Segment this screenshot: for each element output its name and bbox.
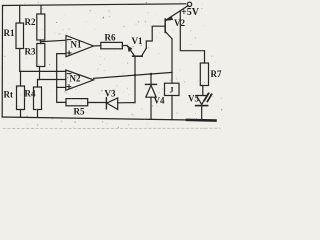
- node junction V1 base: [134, 74, 136, 76]
- wire bottom ground rail: [2, 117, 215, 120]
- wire R6 to V1 emitter: [122, 45, 127, 47]
- svg-text:V1: V1: [132, 36, 143, 46]
- svg-text:Rt: Rt: [4, 90, 14, 100]
- wire +5V branch to R7: [180, 11, 204, 63]
- svg-text:V4: V4: [154, 96, 165, 106]
- wire top +5V rail: [3, 4, 186, 6]
- wire R2/R3 junction to N1 inverting input: [41, 40, 67, 42]
- transistor V1: [127, 45, 146, 56]
- svg-text:R3: R3: [25, 47, 36, 57]
- svg-text:N1: N1: [71, 40, 82, 50]
- wire N2 output node line: [94, 72, 172, 78]
- svg-text:R5: R5: [74, 107, 85, 117]
- op-amp N1: [66, 36, 94, 57]
- wire R1/Rt junction to N2 inverting input: [20, 70, 66, 72]
- op-amp N2: [66, 70, 94, 90]
- resistor R3: [37, 40, 45, 80]
- resistor R2: [37, 5, 45, 40]
- LED V5: [196, 86, 213, 121]
- wire V1 base / feedback node vertical: [134, 56, 136, 102]
- resistor R1: [16, 5, 24, 71]
- svg-text:J: J: [170, 86, 174, 95]
- wire feedback vertical to N1+ and N2+: [57, 54, 66, 103]
- svg-text:R7: R7: [211, 69, 222, 79]
- resistor R7: [200, 63, 208, 86]
- relay coil J: [165, 83, 180, 119]
- wire V2 collector down to relay node: [171, 39, 173, 83]
- wire N2 plus stub: [57, 86, 66, 88]
- op-amp input signs: [67, 39, 71, 41]
- svg-text:R6: R6: [105, 33, 116, 43]
- paper speckle noise: [2, 2, 223, 131]
- svg-text:V2: V2: [174, 18, 185, 28]
- transistor V2: [165, 6, 188, 39]
- wire R3/R4 junction to N2 left edge: [38, 79, 66, 81]
- wire N1 output to R6: [94, 45, 101, 47]
- wire V1 collector to V2 base: [146, 26, 164, 48]
- resistor Rt: [17, 71, 25, 117]
- resistor R5: [66, 99, 88, 106]
- svg-text:N2: N2: [70, 74, 81, 84]
- resistor R6: [101, 42, 123, 48]
- svg-text:R2: R2: [25, 17, 36, 27]
- wire left rail: [1, 6, 3, 118]
- wire bottom rail thick segment: [187, 119, 216, 122]
- diode V4: [146, 74, 157, 120]
- node junction V4 lead: [150, 73, 152, 75]
- node +5V terminal circle: [187, 2, 191, 6]
- svg-text:R4: R4: [25, 89, 36, 99]
- svg-text:V5: V5: [188, 94, 199, 104]
- bottom frame border faint: [3, 127, 220, 129]
- diode V3: [88, 98, 135, 110]
- svg-text:R1: R1: [4, 28, 15, 38]
- resistor R4: [34, 80, 42, 118]
- svg-text:+5V: +5V: [181, 7, 200, 18]
